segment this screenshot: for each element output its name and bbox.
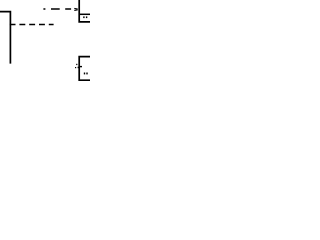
background [0, 0, 90, 90]
wire: dashed horizontal connector at y=24.5 [10, 24, 54, 26]
wire: dashed diagonal connector fragment with arrowhead entering bottom-right box [76, 64, 77, 65]
wire: tick of connector overlapping inside bottom-right box [80, 66, 82, 67]
wire: dashed horizontal connector at y=9 (dependency arrow toward top-right box) [43, 8, 71, 10]
node B label dots (truncated text) in bottom-right box [84, 73, 85, 75]
node: bottom-right box (cut off at right) [79, 57, 90, 81]
arrowhead of top dashed connector (hollow, pointing right) [74, 8, 77, 10]
node: top-right box (cut off at top/right), left edge and bottom edge [79, 0, 90, 22]
node A label dots (truncated text) in top-right box [83, 16, 84, 18]
node: top-right box compartment separator [79, 13, 90, 15]
wire: solid corner polyline from left edge turning down (left node edge) [0, 12, 10, 64]
